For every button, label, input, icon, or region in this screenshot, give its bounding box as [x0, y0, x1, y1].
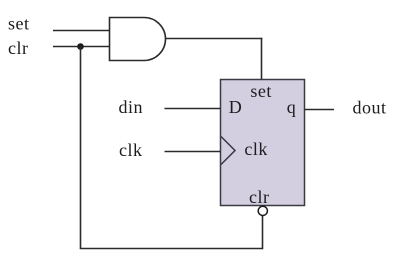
svg-text:set: set — [250, 81, 272, 101]
clock edge triangle — [221, 137, 235, 165]
wire bottom horizontal — [80, 248, 263, 250]
svg-text:clr: clr — [8, 38, 28, 58]
wire set to AND input — [53, 30, 110, 32]
svg-text:set: set — [8, 14, 30, 34]
wire AND output — [166, 38, 263, 40]
svg-text:clk: clk — [119, 140, 143, 160]
wire din to D pin — [165, 108, 221, 110]
wire clk to clock pin — [165, 151, 221, 153]
and gate U1 — [110, 18, 166, 61]
svg-text:dout: dout — [353, 98, 387, 118]
wire clr to AND input — [53, 46, 110, 48]
svg-text:clk: clk — [244, 139, 268, 159]
svg-text:clr: clr — [249, 187, 269, 207]
wire q output — [305, 109, 335, 111]
wire vertical up to clr bubble — [262, 216, 264, 250]
wire clr net vertical down left side — [80, 47, 82, 249]
svg-text:D: D — [229, 97, 243, 117]
wire down to FF set pin — [261, 38, 263, 80]
clr inversion bubble — [258, 206, 267, 215]
D flip-flop U2 body — [221, 80, 305, 206]
junction dot on clr net — [77, 43, 84, 50]
svg-text:din: din — [119, 97, 144, 117]
svg-text:q: q — [287, 97, 297, 117]
